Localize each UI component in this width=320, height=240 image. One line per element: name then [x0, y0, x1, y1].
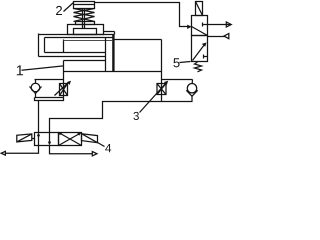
- valve 5 lower flow arrow diagonal: [193, 45, 205, 61]
- valve 5 lower blocked port tick: [203, 55, 205, 59]
- piston (double plate): [112, 35, 114, 72]
- yoke top bar: [39, 34, 115, 36]
- valve 4 exhaust drop: [6, 146, 39, 154]
- cross arrowhead 2: [58, 132, 62, 135]
- valve 5 body upper square: [192, 16, 208, 36]
- lower chamber left edge: [63, 61, 65, 72]
- cylinder upper chamber bottom: [45, 52, 106, 54]
- solenoid 1 diagonal: [17, 134, 32, 142]
- cross arrowhead 1: [77, 132, 81, 135]
- component 3 top rail: [162, 79, 193, 81]
- throttle 3 adjust arrowhead: [164, 81, 168, 85]
- label 4: [105, 144, 111, 152]
- leader line from label 1 to cylinder: [22, 66, 64, 70]
- oil cup / accumulator body (component 2): [74, 2, 95, 9]
- check valve 3 seat: [186, 90, 197, 96]
- solenoid 2 diagonal: [82, 134, 98, 143]
- valve 4 cross flow diagonal 2: [59, 133, 82, 146]
- cylinder bottom edge: [64, 71, 162, 73]
- throttle 3 cross diagonals: [157, 84, 166, 95]
- lower chamber top edge: [64, 60, 106, 62]
- check valve 3 upper stub: [191, 80, 193, 84]
- supply arrowhead (right): [92, 152, 97, 156]
- cylinder top edge right of piston: [115, 39, 162, 41]
- component 1 U drain: left drop: [35, 98, 64, 101]
- valve 5 lower flow arrowhead: [202, 43, 207, 47]
- valve 4 down arrowhead: [48, 142, 51, 146]
- wire from cylinder to check-throttle 1: [63, 72, 65, 80]
- cylinder top edge left of piston: [45, 37, 115, 39]
- component 3 bottom rail: [162, 101, 193, 103]
- valve 4 left square: [35, 133, 59, 146]
- valve 5 output line: [208, 24, 231, 26]
- check valve 3 lower stub: [191, 96, 193, 101]
- yoke plate right end: [114, 32, 116, 35]
- pedestal wide plate: [68, 25, 104, 35]
- valve 5 lower blocked port stub: [204, 56, 208, 58]
- valve 5 exhaust triangle: [224, 34, 229, 39]
- valve 5 pilot plunger box: [196, 2, 203, 16]
- cylinder mid wall: [105, 38, 107, 72]
- cylinder right edge: [161, 40, 163, 72]
- throttle 1 body: [60, 84, 68, 96]
- leader to label 4: [98, 143, 105, 147]
- label 3: [133, 112, 138, 120]
- valve 5 return spring: [195, 62, 202, 72]
- oil cup piston rod (double line): [82, 9, 84, 29]
- solenoid 2 body: [82, 134, 98, 143]
- yoke left edge: [38, 34, 40, 57]
- leader line from label 5 to valve: [180, 62, 191, 63]
- label 1: [17, 65, 23, 75]
- label 5: [173, 58, 179, 67]
- wire from component 1 to valve 4 port A: [38, 101, 40, 133]
- solenoid 1 body: [17, 134, 32, 142]
- valve 5 upper blocked port tick: [202, 23, 204, 27]
- valve 4 up arrow line: [38, 134, 40, 146]
- valve 4 up arrowhead: [37, 133, 40, 137]
- wire from component 3 to valve 4 port B: [50, 102, 162, 133]
- pilot arrowhead at valve 5: [187, 25, 191, 29]
- check valve 1 ball: [31, 83, 40, 92]
- throttle 1 cross diagonals: [60, 84, 68, 96]
- yoke plate top edge: [104, 31, 115, 33]
- throttle 3 adjust arrow with label 3 leader: [140, 83, 167, 113]
- check valve 3 ball: [187, 84, 196, 93]
- cylinder upper-left edge: [44, 38, 46, 53]
- valve 4 down arrow line: [49, 133, 51, 145]
- yoke lower shelf: [39, 56, 106, 58]
- valve 5 upper blocked port stub: [203, 24, 208, 26]
- label 2: [56, 6, 62, 15]
- rod end cap divider: [63, 40, 65, 53]
- pedestal narrow plate: [76, 22, 95, 25]
- valve 5 body lower square: [192, 36, 208, 62]
- throttle 3 branch line: [161, 84, 163, 102]
- throttle 1 adjust arrowhead: [67, 81, 71, 85]
- component 1 top rail: [35, 79, 64, 81]
- component 1 bottom rail: [35, 97, 64, 99]
- check valve 1 upper stub: [35, 80, 37, 84]
- check valve 1 seat: [30, 87, 42, 94]
- valve 4 supply drop: [50, 146, 93, 154]
- solenoid 1 link to valve: [32, 138, 35, 140]
- valve 5 output arrowhead: [226, 22, 231, 27]
- wire from cylinder right to check-throttle 3: [161, 72, 163, 84]
- exhaust arrowhead (left): [1, 151, 5, 155]
- valve 5 upper flow path diagonal: [192, 27, 208, 36]
- plunger diagonal: [196, 2, 203, 16]
- valve 5 exhaust line: [208, 36, 225, 38]
- pedestal inner block: [74, 29, 97, 35]
- throttle 1 adjust arrow: [55, 82, 70, 96]
- throttle 1 branch line: [63, 80, 65, 98]
- pilot line from oil cup to valve 5: [95, 3, 191, 27]
- leader line from label 2 to oil cup: [64, 3, 74, 12]
- piston rod line: [64, 40, 113, 42]
- spring of oil cup: [74, 9, 95, 22]
- check valve 1 lower stub: [35, 94, 37, 98]
- valve 4 cross flow diagonal 1: [59, 133, 82, 146]
- throttle 3 body: [157, 84, 166, 95]
- valve 4 right square: [59, 133, 82, 146]
